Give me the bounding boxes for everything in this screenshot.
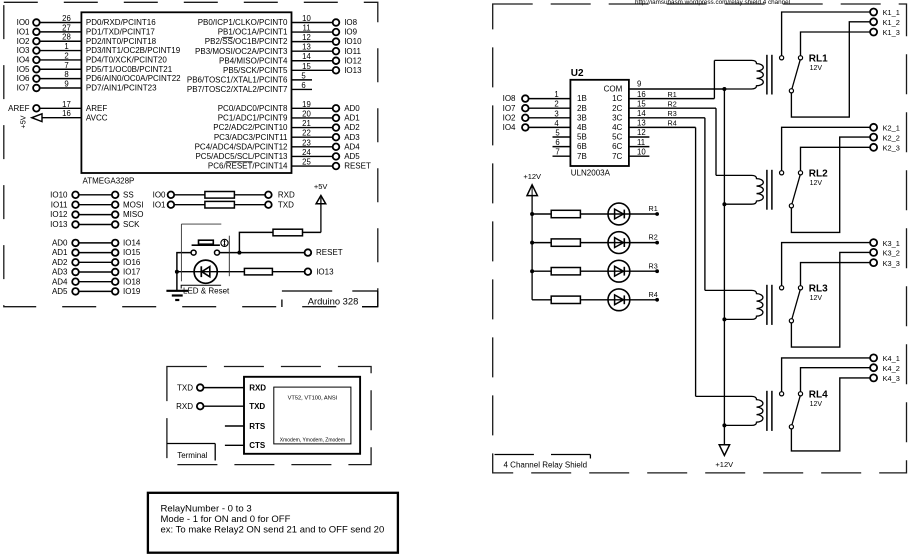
junction +12V bus to RL1 coil	[722, 87, 726, 91]
header link AD1 to IO15	[52, 248, 141, 257]
svg-text:PC5/ADC5/SCL/PCINT13: PC5/ADC5/SCL/PCINT13	[195, 152, 288, 161]
wire K3_1 to RL3 left contact	[782, 243, 871, 286]
svg-text:2: 2	[554, 100, 558, 109]
module label box: 4 Channel Relay Shield	[495, 455, 591, 470]
svg-text:IO2: IO2	[503, 113, 516, 122]
svg-text:K4_1: K4_1	[883, 354, 900, 363]
terminal K2_1	[870, 124, 900, 133]
svg-text:21: 21	[302, 119, 311, 128]
svg-text:K1_3: K1_3	[883, 28, 900, 37]
svg-text:IO18: IO18	[123, 277, 141, 286]
ground	[166, 291, 188, 300]
node net R1 endpoint	[649, 204, 659, 216]
resistor RXD series	[205, 192, 235, 199]
pin 25 PC6/RESET/PCINT14 / terminal RESET	[208, 158, 371, 171]
svg-text:K4_3: K4_3	[883, 374, 900, 383]
relay RL3 switch arm	[792, 290, 800, 319]
svg-text:6B: 6B	[577, 142, 587, 151]
resistor reset pull-up	[273, 229, 303, 236]
svg-text:22: 22	[302, 129, 311, 138]
pin 6 PB7/TOSC2/XTAL2/PCINT7	[187, 81, 312, 94]
wire K4_1 to RL4 left contact	[782, 358, 871, 392]
svg-text:RTS: RTS	[249, 422, 266, 431]
svg-text:IO0: IO0	[17, 18, 30, 27]
svg-text:IO4: IO4	[503, 123, 516, 132]
svg-text:AD3: AD3	[344, 133, 360, 142]
pin 9 COM / wire to +12V bus	[604, 80, 725, 94]
svg-text:10: 10	[637, 147, 646, 156]
header link IO1 through series resistor to TXD	[153, 200, 295, 209]
header link AD4 to IO18	[52, 277, 141, 286]
resistor LED2 series	[551, 239, 580, 246]
svg-text:4: 4	[554, 119, 559, 128]
pin 11 6C stub	[612, 138, 649, 151]
svg-text:AREF: AREF	[86, 104, 107, 113]
wire K1_3 to RL1 right contact	[801, 32, 871, 56]
pin RXD with terminal TXD	[177, 383, 266, 392]
pin 11 PB1/OC1A/PCINT1 / terminal IO9	[218, 24, 358, 37]
wire K4_2 to RL4 right contact	[801, 368, 871, 392]
svg-text:K2_2: K2_2	[883, 133, 900, 142]
svg-text:4C: 4C	[612, 123, 622, 132]
svg-text:IO8: IO8	[344, 18, 357, 27]
pin 19 PC0/ADC0/PCINT8 / terminal AD0	[218, 100, 361, 113]
junction +12V bus to RL2 coil	[722, 202, 726, 206]
svg-text:RXD: RXD	[278, 190, 295, 199]
header link IO13 to SCK	[50, 220, 140, 229]
relay RL1 core bars	[767, 55, 772, 95]
svg-text:CTS: CTS	[249, 441, 266, 450]
wire resistor to IO13 terminal	[272, 271, 304, 273]
svg-text:RelayNumber - 0 to 3: RelayNumber - 0 to 3	[161, 503, 252, 514]
module label box: Arduino 328	[282, 291, 378, 307]
relay RL2 contacts	[780, 171, 803, 208]
relay RL4 switch arm	[792, 396, 800, 425]
resistor LED1 series	[551, 210, 580, 217]
relay RL1 switch arm	[792, 60, 800, 89]
pin 4 4B / terminal IO4	[503, 119, 587, 132]
junction LED cathode / ground rail	[175, 270, 179, 274]
svg-text:AREF: AREF	[8, 104, 29, 113]
svg-text:PB4/MISO/PCINT4: PB4/MISO/PCINT4	[219, 56, 288, 65]
junction +12V bus to LED branch 2	[530, 241, 534, 245]
relay RL3 core bars	[767, 285, 772, 325]
svg-text:4 Channel Relay Shield: 4 Channel Relay Shield	[504, 460, 588, 469]
svg-text:PB0/ICP1/CLKO/PCINT0: PB0/ICP1/CLKO/PCINT0	[198, 18, 288, 27]
resistor TXD series	[205, 201, 235, 208]
pin 16 1C / net R1	[612, 90, 714, 103]
svg-text:PD6/AIN0/OC0A/PCINT22: PD6/AIN0/OC0A/PCINT22	[86, 74, 181, 83]
terminal IO13	[305, 267, 334, 276]
terminal K4_3	[870, 374, 900, 383]
svg-text:AD5: AD5	[344, 152, 360, 161]
LED indicator 4	[608, 289, 630, 311]
svg-text:1: 1	[554, 90, 558, 99]
svg-text:PD3/INT1/OC2B/PCINT19: PD3/INT1/OC2B/PCINT19	[86, 46, 181, 55]
svg-text:IO2: IO2	[17, 37, 30, 46]
node net R3 endpoint	[649, 261, 659, 273]
terminal RESET	[305, 248, 343, 257]
svg-text:+12V: +12V	[715, 460, 733, 469]
svg-text:IO7: IO7	[17, 84, 30, 93]
relay RL1 contacts	[780, 56, 803, 93]
wire K3_3 to RL3 right contact	[801, 263, 871, 286]
svg-text:AD1: AD1	[344, 114, 360, 123]
wire net R1: 1C up to RL1 coil	[713, 60, 715, 98]
header link IO10 to SS	[50, 190, 134, 199]
svg-text:12V: 12V	[810, 401, 823, 408]
svg-text:IO12: IO12	[50, 210, 68, 219]
wire bus to resistor R2 branch	[532, 242, 551, 244]
submodule label LED & Reset	[181, 285, 230, 295]
wire K4_3 to RL4 common contact	[791, 378, 870, 451]
svg-text:RESET: RESET	[316, 248, 343, 257]
terminal K4_1	[870, 354, 900, 363]
svg-text:RL2: RL2	[809, 168, 828, 179]
pin 7 7B stub	[553, 148, 587, 161]
svg-text:16: 16	[637, 90, 646, 99]
pin 20 PC1/ADC1/PCINT9 / terminal AD1	[218, 109, 361, 122]
svg-text:PD0/RXD/PCINT16: PD0/RXD/PCINT16	[86, 18, 156, 27]
terminal K1_1	[870, 8, 900, 17]
svg-text:PD5/T1/OC0B/PCINT21: PD5/T1/OC0B/PCINT21	[86, 65, 173, 74]
svg-text:12: 12	[302, 33, 311, 42]
terminal K4_2	[870, 364, 900, 373]
pin CTS stub	[225, 441, 266, 450]
terminal K2_2	[870, 133, 900, 142]
svg-text:TXD: TXD	[249, 402, 265, 411]
relay RL3 contacts	[780, 286, 803, 323]
wire +12V bus (vertical)	[723, 89, 725, 445]
wire bus to resistor R4 branch	[532, 299, 551, 301]
svg-text:RESET: RESET	[344, 162, 371, 171]
svg-text:28: 28	[62, 33, 71, 42]
svg-text:12V: 12V	[810, 65, 823, 72]
svg-text:4B: 4B	[577, 123, 587, 132]
module frame: 4 Channel Relay Shield (dashed border)	[493, 4, 907, 473]
pin 22 PC3/ADC3/PCINT11 / terminal AD3	[214, 129, 360, 142]
svg-text:PD1/TXD/PCINT17: PD1/TXD/PCINT17	[86, 27, 155, 36]
svg-text:R4: R4	[649, 290, 658, 299]
svg-text:IO1: IO1	[153, 200, 166, 209]
svg-text:PC0/ADC0/PCINT8: PC0/ADC0/PCINT8	[218, 104, 288, 113]
svg-text:IO3: IO3	[17, 46, 30, 55]
svg-text:15: 15	[302, 62, 311, 71]
svg-text:R1: R1	[668, 90, 677, 99]
svg-text:PB5/SCK/PCINT5: PB5/SCK/PCINT5	[223, 66, 288, 75]
svg-text:2: 2	[64, 51, 68, 60]
wire resistor to LED1	[580, 213, 657, 215]
svg-text:16: 16	[62, 109, 71, 118]
pin 13 4C / net R4	[612, 119, 696, 132]
svg-text:PD4/T0/XCK/PCINT20: PD4/T0/XCK/PCINT20	[86, 56, 167, 65]
svg-text:1C: 1C	[612, 94, 622, 103]
svg-text:RXD: RXD	[249, 383, 266, 392]
svg-text:K3_1: K3_1	[883, 239, 900, 248]
svg-text:MISO: MISO	[123, 210, 143, 219]
svg-text:AD0: AD0	[344, 104, 360, 113]
svg-text:5: 5	[555, 129, 560, 138]
svg-text:5B: 5B	[577, 133, 587, 142]
svg-text:27: 27	[62, 23, 71, 32]
svg-text:PC3/ADC3/PCINT11: PC3/ADC3/PCINT11	[214, 133, 288, 142]
svg-text:10: 10	[302, 14, 311, 23]
relay RL2 core bars	[767, 170, 772, 210]
svg-text:K2_3: K2_3	[883, 144, 900, 153]
svg-text:IO13: IO13	[50, 220, 68, 229]
wire crossing (vertical stub)	[228, 236, 230, 277]
svg-text:7B: 7B	[577, 152, 587, 161]
svg-text:U2: U2	[571, 68, 584, 79]
pin 13 PB3/MOSI/OC2A/PCINT3 / terminal IO11	[195, 43, 361, 56]
svg-text:ATMEGA328P: ATMEGA328P	[83, 177, 135, 186]
relay RL4 coil	[696, 396, 763, 425]
svg-text:PC6/RESET/PCINT14: PC6/RESET/PCINT14	[208, 162, 288, 171]
wire pull-up resistor down to RESET node	[239, 232, 273, 252]
svg-text:R1: R1	[649, 204, 658, 213]
wire +5V to pull-up resistor	[303, 231, 321, 233]
svg-text:Xmodem, Ymodem, Zmodem: Xmodem, Ymodem, Zmodem	[280, 438, 345, 444]
pin 26 PD0/RXD/PCINT16 / terminal IO0	[17, 14, 157, 27]
pin 24 PC5/ADC5/SCL/PCINT13 / terminal AD5	[195, 148, 360, 161]
pin 6 6B stub	[553, 138, 587, 151]
wire button to ground rail	[177, 253, 191, 291]
pin 15 2C / net R2	[612, 99, 716, 112]
junction +12V bus to LED branch 1	[530, 212, 534, 216]
svg-text:SS: SS	[123, 190, 134, 199]
svg-text:ULN2003A: ULN2003A	[571, 168, 611, 177]
svg-text:11: 11	[302, 24, 310, 33]
svg-text:6: 6	[301, 81, 305, 90]
pin 10 PB0/ICP1/CLKO/PCINT0 / terminal IO8	[198, 14, 358, 27]
svg-text:+5V: +5V	[314, 182, 328, 191]
svg-text:3B: 3B	[577, 113, 587, 122]
power symbol +12V (LED supply)	[523, 172, 541, 195]
svg-text:AD2: AD2	[344, 123, 360, 132]
svg-text:K1_2: K1_2	[883, 18, 900, 27]
svg-text:TXD: TXD	[278, 200, 294, 209]
svg-text:IO10: IO10	[50, 190, 68, 199]
svg-text:6C: 6C	[612, 142, 622, 151]
svg-text:RXD: RXD	[176, 402, 193, 411]
svg-text:LED & Reset: LED & Reset	[183, 287, 230, 296]
svg-text:AD4: AD4	[344, 142, 360, 151]
svg-text:RL1: RL1	[809, 53, 828, 64]
svg-text:PD7/AIN1/PCINT23: PD7/AIN1/PCINT23	[86, 84, 157, 93]
pin 15 PB5/SCK/PCINT5 / terminal IO13	[223, 62, 362, 75]
wire K1_2 to RL1 common contact	[791, 22, 870, 117]
header link IO0 through series resistor to RXD	[153, 190, 295, 199]
pin 9 PD7/AIN1/PCINT23 / terminal IO7	[17, 79, 158, 92]
header link AD3 to IO17	[52, 268, 141, 277]
terminal K3_3	[870, 259, 900, 268]
terminal K1_3	[870, 28, 900, 37]
svg-text:K2_1: K2_1	[883, 124, 900, 133]
svg-text:12V: 12V	[810, 180, 823, 187]
svg-text:3: 3	[554, 109, 558, 118]
svg-text:5C: 5C	[612, 133, 622, 142]
svg-text:htfp://iamsuhasm.wordpress.com: htfp://iamsuhasm.wordpress.com/relay shi…	[635, 0, 790, 6]
svg-text:IO16: IO16	[123, 258, 141, 267]
svg-text:25: 25	[302, 158, 311, 167]
pin 10 7C stub	[612, 147, 649, 160]
relay RL2 switch arm	[792, 175, 800, 204]
wire net R4: 4C down to RL4 coil	[695, 127, 697, 396]
pin 12 5C stub	[612, 128, 649, 141]
svg-text:IO4: IO4	[17, 56, 30, 65]
terminal K3_1	[870, 239, 900, 248]
svg-text:8: 8	[64, 70, 68, 79]
svg-text:PC4/ADC4/SDA/PCINT12: PC4/ADC4/SDA/PCINT12	[195, 142, 288, 151]
svg-text:2B: 2B	[577, 104, 587, 113]
svg-text:11: 11	[637, 138, 645, 147]
svg-text:3C: 3C	[612, 113, 622, 122]
svg-text:13: 13	[302, 43, 311, 52]
svg-text:IO10: IO10	[344, 37, 362, 46]
svg-text:IO0: IO0	[153, 190, 166, 199]
svg-text:12V: 12V	[810, 295, 823, 302]
junction +12V bus to LED branch 3	[530, 269, 534, 273]
svg-text:IO7: IO7	[503, 104, 516, 113]
pin 2 PD4/T0/XCK/PCINT20 / terminal IO4	[17, 51, 168, 64]
svg-text:IO11: IO11	[344, 47, 361, 56]
junction +12V bus to RL3 coil	[722, 317, 726, 321]
svg-text:IO19: IO19	[123, 287, 141, 296]
pin 23 PC4/ADC4/SDA/PCINT12 / terminal AD4	[195, 138, 361, 151]
svg-text:IO11: IO11	[51, 200, 68, 209]
power symbol +5V (reset pull-up)	[314, 182, 328, 233]
svg-text:Mode - 1 for ON and 0 for OFF: Mode - 1 for ON and 0 for OFF	[161, 514, 291, 525]
svg-text:7: 7	[555, 148, 559, 157]
svg-text:RL4: RL4	[809, 389, 828, 400]
svg-text:19: 19	[302, 100, 311, 109]
wire +12V LED bus (vertical)	[531, 196, 533, 300]
svg-text:Terminal: Terminal	[177, 451, 207, 460]
svg-text:K3_2: K3_2	[883, 249, 900, 258]
svg-text:AD0: AD0	[52, 239, 68, 248]
resistor LED3 series	[551, 268, 580, 275]
node net R4 endpoint	[649, 290, 659, 302]
wire K2_1 to RL2 left contact	[782, 127, 871, 170]
wire K2_2 to RL2 common contact	[791, 137, 870, 232]
pin 3 3B / terminal IO2	[503, 109, 587, 122]
svg-text:TXD: TXD	[177, 383, 193, 392]
LED indicator 2	[608, 232, 630, 254]
LED D1 (indicator)	[194, 260, 217, 283]
relay RL2 coil	[716, 175, 763, 204]
pin RTS stub	[225, 422, 266, 431]
svg-text:IO6: IO6	[17, 74, 30, 83]
svg-text:7: 7	[64, 61, 68, 70]
svg-text:PB6/TOSC1/XTAL1/PCINT6: PB6/TOSC1/XTAL1/PCINT6	[187, 75, 288, 84]
svg-text:9: 9	[637, 80, 641, 89]
power symbol +12V (bus terminator, pointing down)	[715, 445, 733, 469]
svg-text:AD3: AD3	[52, 268, 68, 277]
wire RESET node to RESET terminal	[220, 252, 305, 254]
svg-text:AD4: AD4	[52, 277, 68, 286]
header link AD0 to IO14	[52, 239, 141, 248]
svg-text:IO9: IO9	[344, 28, 357, 37]
svg-text:IO15: IO15	[123, 248, 141, 257]
svg-text:PB7/TOSC2/XTAL2/PCINT7: PB7/TOSC2/XTAL2/PCINT7	[187, 85, 288, 94]
svg-text:K3_3: K3_3	[883, 259, 900, 268]
svg-text:+5V: +5V	[19, 115, 28, 128]
header link IO12 to MISO	[50, 210, 143, 219]
module label box: Terminal	[167, 444, 215, 461]
svg-text:SCK: SCK	[123, 220, 140, 229]
svg-text:5: 5	[301, 71, 306, 80]
relay RL4 contacts	[780, 392, 803, 429]
svg-text:ex: To make Relay2 ON send 21: ex: To make Relay2 ON send 21 and to OFF…	[161, 525, 385, 536]
wire ground rail to LED	[177, 271, 245, 273]
pin 5 5B stub	[553, 129, 587, 142]
svg-text:26: 26	[62, 14, 71, 23]
pin 14 3C / net R3	[612, 109, 705, 122]
resistor IO13 series	[244, 268, 272, 275]
pin 7 PD5/T1/OC0B/PCINT21 / terminal IO5	[17, 61, 173, 74]
pin 17 AREF / terminal AREF	[8, 100, 107, 113]
LED indicator 3	[608, 260, 630, 282]
svg-text:R4: R4	[668, 119, 677, 128]
svg-text:17: 17	[62, 100, 71, 109]
svg-text:RL3: RL3	[809, 283, 828, 294]
wire bus to resistor R1 branch	[532, 213, 551, 215]
pin 21 PC2/ADC2/PCINT10 / terminal AD2	[213, 119, 360, 132]
svg-text:13: 13	[637, 119, 646, 128]
junction +12V bus to RL4 coil	[722, 423, 726, 427]
header link AD5 to IO19	[52, 287, 141, 296]
svg-text:6: 6	[555, 138, 559, 147]
op-amp U2 ULN2003A body	[570, 80, 629, 166]
svg-text:AD5: AD5	[52, 287, 68, 296]
svg-text:K1_1: K1_1	[883, 8, 900, 17]
svg-text:PB3/MOSI/OC2A/PCINT3: PB3/MOSI/OC2A/PCINT3	[195, 47, 288, 56]
svg-text:14: 14	[637, 109, 646, 118]
wire K3_2 to RL3 common contact	[791, 252, 870, 347]
pin 16 AVCC with +5V power arrow	[19, 109, 108, 128]
pin TXD with terminal RXD	[176, 402, 265, 411]
svg-text:AD1: AD1	[52, 248, 68, 257]
terminal inner screen box	[274, 387, 351, 444]
svg-text:9: 9	[64, 79, 68, 88]
svg-text:COM: COM	[604, 85, 623, 94]
svg-text:IO17: IO17	[123, 268, 141, 277]
svg-text:IO1: IO1	[17, 27, 30, 36]
wire resistor to LED3	[580, 270, 657, 272]
wire K2_3 to RL2 right contact	[801, 147, 871, 170]
svg-text:Arduino 328: Arduino 328	[308, 296, 359, 307]
svg-text:R3: R3	[668, 109, 677, 118]
svg-text:R2: R2	[649, 233, 658, 242]
relay RL3 coil	[705, 290, 763, 319]
svg-text:IO13: IO13	[344, 66, 362, 75]
node net R2 endpoint	[649, 233, 659, 245]
svg-text:12: 12	[637, 128, 646, 137]
module frame: Terminal (dashed border)	[167, 367, 371, 465]
pin 1 PD3/INT1/OC2B/PCINT19 / terminal IO3	[17, 42, 181, 55]
svg-text:AD2: AD2	[52, 258, 68, 267]
svg-text:IO5: IO5	[17, 65, 30, 74]
svg-text:2C: 2C	[612, 104, 622, 113]
svg-text:14: 14	[302, 52, 311, 61]
svg-text:7C: 7C	[612, 152, 622, 161]
pin 27 PD1/TXD/PCINT17 / terminal IO1	[17, 23, 156, 36]
svg-text:PC2/ADC2/PCINT10: PC2/ADC2/PCINT10	[213, 123, 288, 132]
pin 28 PD2/INT0/PCINT18 / terminal IO2	[17, 33, 157, 46]
svg-text:MOSI: MOSI	[123, 200, 143, 209]
pin 12 PB2/SS/OC1B/PCINT2 / terminal IO10	[205, 33, 362, 46]
svg-text:15: 15	[637, 99, 646, 108]
